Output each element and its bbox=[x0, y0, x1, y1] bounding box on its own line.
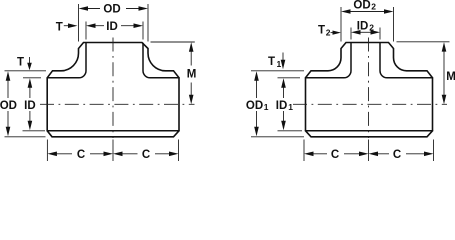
dimension M dimension line lower bbox=[190, 83, 192, 96]
svg-text:2: 2 bbox=[369, 22, 374, 32]
arrowhead ID left bbox=[86, 23, 96, 28]
svg-text:T: T bbox=[318, 25, 325, 37]
run OD1 bottom extension line bbox=[251, 136, 304, 138]
svg-text:OD: OD bbox=[353, 0, 370, 12]
svg-text:2: 2 bbox=[371, 2, 376, 12]
dimension M extension line (branch top plane) bbox=[397, 41, 450, 43]
run OD bottom extension line bbox=[5, 136, 46, 138]
run bore top-left line with crotch fillet into branch bore left wall bbox=[306, 43, 352, 78]
arrowhead run ID up bbox=[28, 78, 33, 88]
dimension OD (branch) extension line right bbox=[147, 4, 149, 42]
arrowhead ID2 left bbox=[351, 30, 361, 35]
arrowhead ID1 up bbox=[281, 78, 286, 88]
arrowhead run ID down bbox=[28, 121, 33, 131]
svg-text:C: C bbox=[393, 149, 401, 161]
run bore ID1 bottom extension line bbox=[278, 130, 303, 132]
arrowhead C3 right bbox=[359, 152, 369, 157]
svg-text:OD: OD bbox=[246, 100, 263, 112]
dimension M dimension line bbox=[443, 51, 445, 95]
svg-text:ID: ID bbox=[106, 21, 118, 33]
arrowhead M down bbox=[442, 95, 447, 105]
run bore bottom extension line bbox=[23, 130, 46, 132]
svg-text:C: C bbox=[142, 149, 150, 161]
dimension C middle extension line bbox=[368, 140, 370, 162]
arrowhead OD2 right bbox=[384, 9, 394, 14]
dimension ID1 dimension line bbox=[283, 87, 285, 122]
svg-text:OD: OD bbox=[103, 4, 120, 16]
arrowhead M up bbox=[189, 42, 194, 52]
dimension C right dimension line bbox=[378, 153, 424, 155]
svg-text:1: 1 bbox=[288, 102, 293, 112]
svg-text:ID: ID bbox=[24, 100, 36, 112]
dimension C left extension line bbox=[46, 140, 48, 162]
svg-text:1: 1 bbox=[277, 59, 282, 69]
vertical branch centerline bbox=[112, 38, 114, 139]
run bore ID1 top extension line bbox=[278, 77, 301, 79]
dimension OD (branch) dimension line bbox=[88, 8, 140, 10]
horizontal run centerline bbox=[40, 103, 195, 105]
run bore top-right line with crotch fillet into branch bore right wall bbox=[380, 43, 433, 78]
dimension ID (branch) extension line right bbox=[142, 22, 144, 40]
run bore top extension line bbox=[23, 77, 41, 79]
dimension OD1 dimension line bbox=[256, 80, 258, 128]
svg-text:ID: ID bbox=[276, 100, 288, 112]
dimension ID (run) dimension line bbox=[29, 87, 31, 122]
run OD top extension line bbox=[5, 70, 47, 72]
leader arrow T2 bbox=[331, 32, 334, 34]
dimension ID (branch) dimension line bbox=[95, 25, 134, 27]
dimension C left dimension line bbox=[314, 153, 360, 155]
horizontal run centerline bbox=[293, 103, 447, 105]
run bore bottom line bbox=[47, 130, 179, 132]
dimension OD2 extension line right bbox=[393, 7, 395, 42]
arrowhead ID1 down bbox=[281, 121, 286, 131]
leader arrow T (branch wall) bbox=[64, 25, 69, 27]
dimension C middle extension line bbox=[112, 140, 114, 162]
tee body outer outline with end bevels bbox=[306, 43, 433, 137]
dimension M extension line (branch top plane) bbox=[151, 41, 195, 43]
svg-text:ID: ID bbox=[357, 20, 369, 32]
run bore top-right line with crotch fillet into branch bore right wall bbox=[143, 43, 179, 78]
arrowhead ID right bbox=[134, 23, 144, 28]
vertical branch centerline bbox=[368, 38, 370, 139]
arrowhead OD1 up bbox=[254, 71, 259, 81]
arrowhead C1 right bbox=[104, 152, 114, 157]
dimension OD2 extension line left bbox=[340, 7, 342, 42]
arrowhead C3 left bbox=[304, 152, 314, 157]
arrowhead OD left bbox=[79, 6, 89, 11]
arrowhead C1 left bbox=[47, 152, 57, 157]
arrowhead C4 right bbox=[424, 152, 434, 157]
run OD1 top extension line bbox=[251, 70, 304, 72]
arrowhead OD2 left bbox=[341, 9, 351, 14]
run bore bottom line bbox=[306, 130, 433, 132]
svg-text:T: T bbox=[268, 56, 275, 68]
svg-text:T: T bbox=[56, 22, 63, 34]
run bore top-left line with crotch fillet into branch bore left wall bbox=[47, 43, 86, 78]
arrowhead run OD down bbox=[6, 127, 11, 137]
leader arrow T1 pointing down bbox=[282, 53, 284, 61]
dimension OD (branch) extension line left bbox=[78, 4, 80, 42]
arrowhead C2 left bbox=[113, 152, 123, 157]
svg-text:M: M bbox=[187, 69, 197, 81]
arrowhead ID2 right bbox=[371, 30, 381, 35]
arrowhead run OD up bbox=[6, 71, 11, 81]
dimension OD (run) dimension line bbox=[7, 80, 9, 128]
dimension ID2 extension line right bbox=[379, 28, 381, 40]
arrowhead OD1 down bbox=[254, 127, 259, 137]
arrowhead OD right bbox=[139, 6, 149, 11]
arrowhead M up bbox=[442, 42, 447, 52]
dimension M dimension line upper bbox=[190, 51, 192, 66]
arrowhead C4 left bbox=[369, 152, 379, 157]
arrowhead C2 right bbox=[169, 152, 179, 157]
svg-text:C: C bbox=[77, 149, 85, 161]
svg-text:OD: OD bbox=[0, 100, 17, 112]
tee body outer outline with end bevels bbox=[47, 43, 179, 137]
dimension C right dimension line bbox=[122, 153, 170, 155]
dimension C left extension line bbox=[303, 140, 305, 162]
svg-text:T: T bbox=[17, 57, 24, 69]
leader arrow T run wall pointing down bbox=[29, 57, 31, 63]
dimension C left dimension line bbox=[57, 153, 105, 155]
dimension ID2 extension line left bbox=[350, 28, 352, 40]
svg-text:1: 1 bbox=[264, 102, 269, 112]
svg-text:2: 2 bbox=[326, 28, 331, 38]
dimension C right extension line bbox=[433, 140, 435, 162]
dimension C right extension line bbox=[178, 140, 180, 162]
dimension OD2 dimension line bbox=[350, 11, 385, 13]
dimension ID2 dimension line bbox=[361, 31, 372, 33]
dimension ID (branch) extension line left bbox=[85, 22, 87, 40]
svg-text:C: C bbox=[331, 149, 339, 161]
arrowhead M down bbox=[189, 95, 194, 105]
svg-text:M: M bbox=[446, 71, 455, 83]
